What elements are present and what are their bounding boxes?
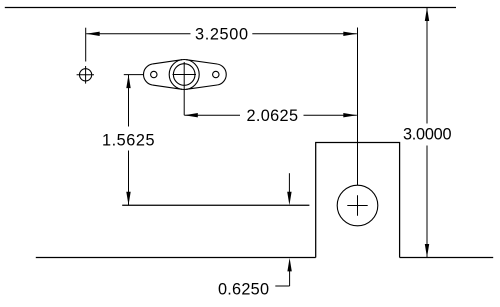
top edge line of part: [5, 7, 456, 9]
dimension text 3.2500: [195, 25, 248, 43]
dimension text 3.0000: [403, 125, 452, 143]
dimension 1.5625: dimension line and arrows: [126, 75, 130, 206]
dimension 0.6250: lower arrow with leader elbow: [275, 258, 292, 286]
center mark of tab hole: [347, 195, 367, 215]
lug horizontal center mark: [173, 74, 197, 76]
svg-text:2.0625: 2.0625: [247, 107, 299, 125]
dimension 3.2500: dimension line and arrows: [86, 32, 357, 36]
lug outline: left end cap arc: [144, 64, 153, 85]
raised boss tab outline: [316, 143, 400, 258]
dimension 1.5625: extension line to lug: [124, 74, 143, 76]
dimension 3.2500: extension line at left datum: [85, 28, 87, 62]
dimension text 1.5625: [102, 132, 155, 150]
lug center hole circle: [173, 64, 195, 86]
dimension 2.0625: dimension line and arrows: [184, 113, 356, 117]
dimension 0.6250: upper arrow pointing down at step line: [287, 173, 291, 205]
bottom edge line, left segment: [36, 257, 316, 259]
bottom edge line, right segment: [400, 257, 494, 259]
vertical centerline of tab hole up to 3.2500 dimension: [357, 28, 359, 186]
datum point target circle: [77, 66, 94, 84]
dimension 3.0000: dimension line and arrows: [425, 8, 429, 258]
lug left small hole: [151, 71, 157, 77]
lug outline: right end cap arc: [217, 64, 226, 85]
lug vertical centerline down to 2.0625 dimension: [183, 62, 185, 115]
lug right small hole: [213, 71, 219, 77]
dimension text 0.6250: [218, 280, 269, 298]
dimension text 2.0625: [247, 107, 299, 125]
lug center boss circle: [169, 60, 199, 90]
lug outline: tangent lines: [153, 60, 217, 90]
hole circle in boss tab: [337, 185, 378, 226]
svg-text:3.2500: 3.2500: [195, 25, 248, 43]
svg-text:0.6250: 0.6250: [218, 280, 269, 298]
svg-text:3.0000: 3.0000: [403, 125, 452, 143]
svg-text:1.5625: 1.5625: [102, 132, 155, 150]
step edge line: [122, 204, 309, 206]
